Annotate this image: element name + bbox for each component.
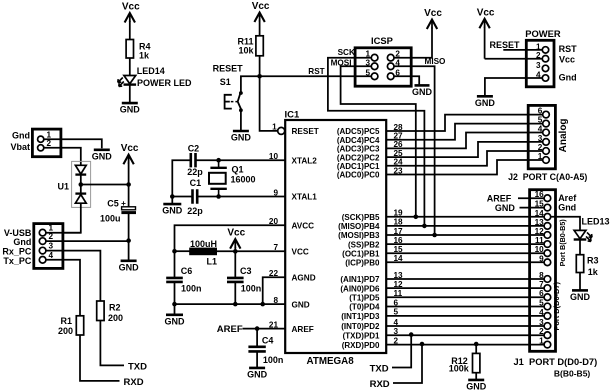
svg-text:GND: GND: [292, 300, 310, 309]
svg-text:10: 10: [535, 245, 545, 254]
wire PD wire 306.5: [386, 306, 544, 308]
wire RST node to S1: [241, 76, 260, 91]
wire XTAL1 line: [197, 196, 285, 198]
wire R2 to TXD label: [100, 321, 124, 366]
svg-text:AREF: AREF: [217, 324, 243, 335]
resistor R11 body: [256, 36, 263, 56]
svg-text:GND: GND: [475, 98, 496, 108]
J1 pin 15: [544, 204, 551, 211]
wire R1 to RXD label: [80, 335, 120, 381]
diode U1 top diode: [75, 165, 86, 174]
svg-text:(INT1)PD3: (INT1)PD3: [341, 312, 380, 321]
junction MOSI wire joins PB5 row: [414, 215, 419, 220]
svg-text:1k: 1k: [588, 267, 599, 277]
svg-text:Vcc: Vcc: [227, 228, 245, 239]
svg-text:RESET: RESET: [292, 127, 319, 136]
svg-text:Vcc: Vcc: [122, 2, 140, 13]
V-USB pin 3: [39, 247, 46, 254]
svg-text:22p: 22p: [187, 206, 203, 216]
svg-text:100uH: 100uH: [190, 239, 217, 249]
wire PD wire 279.0: [386, 278, 544, 280]
svg-text:MISO: MISO: [425, 57, 447, 66]
svg-text:TXD: TXD: [370, 363, 389, 374]
svg-text:4: 4: [538, 125, 543, 134]
svg-text:XTAL1: XTAL1: [292, 193, 318, 202]
ground analog ground: [165, 315, 186, 327]
wire AREF to J1 pin16: [518, 197, 544, 199]
capacitor C1 plates: [193, 189, 198, 203]
wire PB wire 253.2: [386, 252, 544, 254]
wire VCC line right of L1: [217, 250, 286, 252]
ICSP pin 1: [371, 54, 378, 61]
ICSP pin 4: [387, 63, 394, 70]
svg-text:R1: R1: [60, 316, 72, 326]
J1 pin 3: [544, 323, 551, 330]
svg-text:C6: C6: [181, 266, 193, 276]
wire C6 bottom lead: [174, 282, 176, 304]
J2 pin 4: [543, 129, 550, 136]
resistor R3 body: [576, 255, 583, 273]
wire V-USB pin2 to GND node: [46, 240, 129, 242]
J1 pin 9: [544, 259, 551, 266]
svg-text:Tx_PC: Tx_PC: [3, 256, 32, 266]
capacitor C4 plates: [248, 347, 265, 352]
wire R3 to GND: [579, 273, 581, 291]
connector POWER header body: [526, 40, 554, 87]
svg-text:15: 15: [535, 200, 545, 209]
svg-text:J1 PORT D(D0-D7): J1 PORT D(D0-D7): [514, 357, 598, 367]
svg-text:(ICP)PB0: (ICP)PB0: [345, 259, 380, 268]
svg-text:LED14: LED14: [137, 66, 165, 76]
diode-pair U1 outline box: [72, 161, 91, 207]
svg-text:L1: L1: [207, 257, 218, 267]
junction C3 gnd join: [233, 302, 238, 307]
svg-text:100n: 100n: [263, 355, 284, 365]
wire J1 pin14 to LED13: [551, 217, 580, 231]
svg-text:J2 PORT C(A0-A5): J2 PORT C(A0-A5): [508, 172, 587, 182]
wire V-USB pin3 to R2 to TXD: [46, 251, 100, 301]
svg-text:(ADC5)PC5: (ADC5)PC5: [337, 127, 380, 136]
ground C5 ground: [119, 261, 140, 273]
svg-text:2: 2: [538, 143, 543, 152]
svg-text:(ADC1)PC1: (ADC1)PC1: [337, 162, 380, 171]
inductor L1 body: [190, 248, 217, 255]
svg-text:3: 3: [49, 242, 54, 251]
svg-text:11: 11: [535, 236, 544, 245]
J1 pin 13: [544, 223, 551, 230]
svg-text:SCK: SCK: [338, 48, 355, 57]
svg-text:RESET: RESET: [213, 64, 244, 74]
wire PD wire 297.2: [386, 296, 544, 298]
connector J2 PORT C body: [528, 105, 555, 168]
junction R12 node: [474, 342, 479, 347]
LED LED13 symbol: [574, 230, 592, 241]
ground POWER ground: [475, 96, 496, 108]
wire PD wire 326.0: [386, 325, 544, 327]
svg-text:1k: 1k: [139, 51, 150, 61]
V-USB pin 1: [39, 229, 46, 236]
svg-text:Vcc: Vcc: [252, 1, 270, 12]
junction GND node below C5: [126, 238, 131, 243]
svg-text:U1: U1: [57, 182, 69, 192]
wire battery pin1 to GND: [44, 139, 102, 148]
junction Vcc/U1 junction: [126, 182, 131, 187]
svg-text:GND: GND: [466, 381, 487, 391]
J1 pin 8: [544, 276, 551, 283]
capacitor C3 plates: [227, 278, 244, 282]
wire L1 left to AVCC node: [175, 250, 190, 252]
svg-text:2: 2: [49, 232, 54, 241]
junction C6 gnd join: [172, 302, 177, 307]
op IC1 ATMEGA8 body: [285, 120, 386, 353]
connector battery header (Gnd/Vbat) body: [32, 129, 61, 157]
wire PD wire 335.2: [386, 334, 544, 336]
svg-text:Aref: Aref: [558, 193, 577, 203]
J2 pin 5: [543, 120, 550, 127]
junction TXD joins PD1: [409, 332, 414, 337]
svg-text:1: 1: [272, 122, 277, 131]
connector V-USB header body: [34, 224, 63, 269]
wire U1 bottom diode to V-USB pin1: [44, 203, 81, 233]
svg-text:GND: GND: [165, 316, 186, 326]
wire U1 top diode to node: [80, 175, 82, 194]
svg-text:GND: GND: [162, 206, 183, 216]
wire PD wire 344.6: [386, 344, 544, 346]
J1 pin 14: [544, 214, 551, 221]
wire V-USB pin4 to R1 to RXD: [46, 260, 80, 316]
svg-text:Gnd: Gnd: [559, 72, 577, 82]
svg-text:1: 1: [47, 130, 52, 139]
svg-text:3: 3: [365, 58, 370, 67]
junction RXD joins PD0: [420, 342, 425, 347]
svg-text:5: 5: [365, 68, 370, 77]
power Vcc rail above R11: [252, 1, 270, 22]
svg-text:Vcc: Vcc: [424, 8, 442, 19]
svg-text:Vcc: Vcc: [121, 143, 139, 154]
J1 pin 2: [544, 332, 551, 339]
svg-text:RXD: RXD: [124, 377, 144, 388]
svg-text:GND: GND: [120, 105, 141, 115]
wire POWER pin2 wire: [485, 58, 543, 60]
switch S1: [225, 91, 243, 112]
svg-text:4: 4: [539, 308, 544, 317]
svg-text:GND: GND: [495, 203, 516, 213]
wire C2 left to xtal gnd node: [172, 160, 191, 204]
wire C3 top lead: [234, 251, 236, 278]
svg-text:Gnd: Gnd: [558, 203, 576, 213]
svg-text:GND: GND: [92, 151, 113, 161]
svg-text:R2: R2: [109, 303, 121, 313]
wire U1 node to Vcc rail: [81, 184, 129, 186]
wire R4 to LED14: [129, 58, 131, 76]
ICSP pin 5: [371, 73, 378, 80]
resistor R2 body: [97, 301, 104, 321]
svg-text:5: 5: [539, 299, 544, 308]
svg-text:100n: 100n: [181, 284, 202, 294]
wire C5 to GND: [128, 213, 130, 261]
svg-text:(SS)PB2: (SS)PB2: [348, 240, 380, 249]
wire POWER Vcc riser: [484, 27, 486, 59]
wire R11 to RST node: [259, 56, 261, 77]
wire XTAL2 line: [196, 159, 286, 161]
ICSP pin 6: [387, 73, 394, 80]
resistor R4 body: [126, 40, 133, 59]
svg-text:B(B0-B5): B(B0-B5): [554, 368, 591, 378]
svg-text:22p: 22p: [187, 167, 203, 177]
ground crystal ground: [162, 204, 183, 216]
svg-text:C5: C5: [107, 199, 119, 209]
svg-text:(MISO)PB4: (MISO)PB4: [338, 222, 380, 231]
wire PC wire 157.1: [386, 142, 543, 157]
wire C4 top lead: [256, 329, 258, 347]
wire V-USB pin1 stub: [46, 232, 81, 234]
wire PB wire 262.3: [386, 261, 544, 263]
svg-text:16000: 16000: [231, 174, 256, 184]
junction SCK wire joins PB4 row: [422, 224, 427, 229]
wire PC wire 131.0: [386, 115, 543, 131]
junction MISO wire joins PB3 row: [432, 233, 437, 238]
svg-text:RST: RST: [559, 44, 578, 54]
svg-text:6: 6: [538, 107, 543, 116]
power Vcc top-left rail: [122, 2, 140, 23]
svg-text:13: 13: [535, 218, 545, 227]
wire RXD to PD0: [393, 344, 422, 383]
svg-text:14: 14: [535, 209, 545, 218]
junction Q1 top junction: [216, 158, 221, 163]
wire Vcc to R4: [129, 21, 131, 40]
svg-text:Analog: Analog: [558, 118, 569, 152]
svg-text:Port B(B0-B5): Port B(B0-B5): [558, 219, 567, 267]
ground LED14 ground: [120, 103, 141, 115]
svg-text:10k: 10k: [238, 46, 254, 56]
svg-text:Q1: Q1: [232, 165, 244, 175]
svg-text:RXD: RXD: [370, 379, 390, 390]
wire TXD to PD1: [392, 335, 411, 368]
svg-text:100u: 100u: [100, 214, 121, 224]
svg-text:XTAL2: XTAL2: [292, 156, 318, 165]
svg-text:1: 1: [538, 152, 543, 161]
svg-text:MOSI: MOSI: [331, 58, 352, 67]
svg-text:S1: S1: [220, 77, 231, 87]
wire PB wire 216.8: [386, 216, 544, 218]
V-USB pin 2: [39, 238, 46, 245]
IC1 pin 1 inverting bubble: [278, 127, 285, 134]
wire SCK wire: [328, 58, 425, 226]
svg-text:100n: 100n: [241, 284, 262, 294]
J1 pin 6: [544, 294, 551, 301]
power Vcc rail at VCC pin: [227, 228, 245, 249]
ICSP pin 2: [387, 54, 394, 61]
svg-text:(RXD)PD0: (RXD)PD0: [342, 341, 380, 350]
svg-text:Gnd: Gnd: [12, 130, 30, 140]
svg-text:GND: GND: [570, 292, 591, 302]
wire MOSI wire: [341, 66, 416, 217]
svg-text:C4: C4: [262, 336, 274, 346]
wire S1 to GND: [240, 110, 242, 130]
wire ICSP Vcc wire: [394, 28, 432, 58]
svg-text:4: 4: [536, 71, 541, 80]
svg-text:2: 2: [536, 51, 541, 60]
junction AGND join: [260, 302, 265, 307]
svg-text:200: 200: [108, 313, 123, 323]
svg-text:2: 2: [539, 327, 544, 336]
wire PB wire 244.1: [386, 243, 544, 245]
svg-text:VCC: VCC: [292, 247, 309, 256]
wire PD wire 288.1: [386, 287, 544, 289]
POWER pin 2: [542, 56, 548, 62]
ground R12 ground: [466, 380, 487, 391]
svg-text:(ADC4)PC4: (ADC4)PC4: [337, 136, 380, 145]
svg-text:GND: GND: [119, 262, 140, 272]
svg-text:RST: RST: [308, 67, 324, 76]
wire PB wire 235.0: [386, 234, 544, 236]
wire POWER pin4 wire: [485, 78, 542, 96]
svg-text:(T0)PD4: (T0)PD4: [349, 303, 380, 312]
wire GND pin line: [175, 304, 286, 315]
svg-text:3: 3: [538, 134, 543, 143]
J2 pin 6: [543, 111, 550, 118]
svg-text:Vcc: Vcc: [477, 7, 495, 18]
svg-text:9: 9: [539, 254, 544, 263]
ground battery ground: [92, 150, 113, 162]
svg-text:12: 12: [535, 227, 545, 236]
svg-text:3: 3: [539, 318, 544, 327]
svg-text:GND: GND: [412, 87, 433, 97]
wire PC wire 139.7: [386, 124, 543, 140]
svg-text:8: 8: [539, 271, 544, 280]
capacitor C6 plates: [166, 278, 183, 282]
svg-text:Vcc: Vcc: [559, 54, 575, 64]
V-USB pin 4: [39, 257, 46, 264]
junction Q1 bottom junction: [216, 194, 221, 199]
J1 pin 5: [544, 303, 551, 310]
wire PC wire 165.8: [386, 151, 543, 166]
wire C4 bottom lead: [256, 351, 258, 368]
junction VCC/C3 node: [233, 249, 238, 254]
wire C6 top lead: [174, 251, 176, 278]
resistor R1 body: [76, 316, 83, 335]
wire R12 to GND: [475, 373, 477, 380]
svg-text:(ADC3)PC3: (ADC3)PC3: [337, 145, 380, 154]
J1 pin 11: [544, 241, 551, 248]
battery pin 1: [38, 136, 44, 142]
wire PD wire 315.9: [386, 315, 544, 317]
J1 pin 12: [544, 232, 551, 239]
POWER pin 1: [542, 47, 548, 53]
ground LED13 ground: [570, 290, 591, 302]
svg-text:ICSP: ICSP: [371, 35, 393, 46]
svg-text:16: 16: [535, 190, 545, 199]
J1 pin 7: [544, 285, 551, 292]
svg-text:RESET: RESET: [490, 40, 521, 50]
J1 pin 16: [544, 195, 551, 202]
wire Vcc arrow to VCC line: [234, 247, 236, 252]
svg-text:5: 5: [538, 116, 543, 125]
wire PC wire 148.4: [386, 133, 543, 149]
svg-text:Vbat: Vbat: [10, 142, 30, 152]
svg-text:GND: GND: [247, 369, 268, 379]
wire C3 bottom lead: [234, 282, 236, 304]
svg-text:AREF: AREF: [292, 325, 314, 334]
svg-text:(INT0)PD2: (INT0)PD2: [341, 322, 380, 331]
svg-text:IC1: IC1: [285, 109, 301, 120]
POWER pin 3: [542, 65, 548, 71]
power Vcc rail above ICSP: [424, 8, 442, 29]
junction RST node: [257, 74, 262, 79]
svg-text:1: 1: [536, 42, 541, 51]
wire R12 lead: [475, 344, 477, 353]
J1 pin 10: [544, 250, 551, 257]
svg-text:6: 6: [539, 289, 544, 298]
svg-text:AVCC: AVCC: [292, 221, 315, 230]
svg-text:6: 6: [395, 68, 400, 77]
wire C1 left to xtal gnd node: [172, 196, 192, 198]
wire RST node to ICSP pin5: [260, 75, 372, 77]
svg-text:POWER LED: POWER LED: [137, 78, 192, 88]
svg-text:(ADC0)PC0: (ADC0)PC0: [337, 171, 380, 180]
svg-text:C3: C3: [240, 266, 252, 276]
wire ICSP GND wire: [394, 76, 419, 84]
wire AVCC line: [175, 225, 286, 251]
capacitor C5 plates (electrolytic): [122, 207, 136, 210]
svg-text:(SCK)PB5: (SCK)PB5: [342, 213, 380, 222]
svg-text:4: 4: [395, 58, 400, 67]
J1 pin 4: [544, 313, 551, 320]
wire battery pin2 to U1: [44, 148, 81, 166]
svg-text:200: 200: [58, 326, 73, 336]
wire PB wire 225.9: [386, 225, 544, 227]
junction U1 mid node: [79, 182, 84, 187]
svg-text:TXD: TXD: [128, 362, 147, 373]
wire GND to J1 pin15: [520, 207, 545, 209]
wire AGND line: [263, 277, 286, 304]
svg-text:100k: 100k: [449, 364, 470, 374]
svg-text:(OC1)PB1: (OC1)PB1: [342, 249, 380, 258]
resistor R12 body: [473, 353, 480, 372]
wire PC wire 174.5: [386, 160, 543, 175]
svg-text:POWER: POWER: [525, 28, 561, 39]
LED LED14 symbol: [118, 76, 136, 87]
svg-text:4: 4: [49, 251, 54, 260]
J2 pin 2: [543, 148, 550, 155]
svg-text:(ADC2)PC2: (ADC2)PC2: [337, 153, 380, 162]
wire MISO wire: [394, 66, 435, 235]
battery pin 2: [38, 145, 44, 151]
svg-text:(TXD)PD1: (TXD)PD1: [343, 331, 380, 340]
crystal Q1: [209, 160, 227, 196]
diode U1 bottom (pointing up): [75, 194, 86, 204]
wire Vcc to R11: [259, 21, 261, 36]
wire AREF line: [243, 328, 286, 330]
svg-text:1: 1: [539, 337, 544, 346]
svg-text:3: 3: [536, 61, 541, 70]
svg-text:2: 2: [47, 139, 52, 148]
svg-text:R3: R3: [587, 255, 599, 265]
J2 pin 1: [543, 157, 550, 164]
junction AREF/C4 node: [255, 326, 260, 331]
junction xtal gnd node: [170, 194, 175, 199]
svg-text:Port D(D0-D7): Port D(D0-D7): [552, 282, 561, 331]
svg-text:C2: C2: [188, 144, 200, 154]
connector ICSP header body: [355, 48, 411, 86]
J2 pin 3: [543, 139, 550, 146]
ICSP pin 3: [371, 63, 378, 70]
connector J1 PORT D body: [530, 190, 556, 352]
wire LED14 to GND: [129, 85, 131, 103]
wire Vcc rail down to C5: [128, 163, 130, 207]
svg-text:(T1)PD5: (T1)PD5: [349, 293, 380, 302]
svg-text:LED13: LED13: [582, 217, 610, 227]
